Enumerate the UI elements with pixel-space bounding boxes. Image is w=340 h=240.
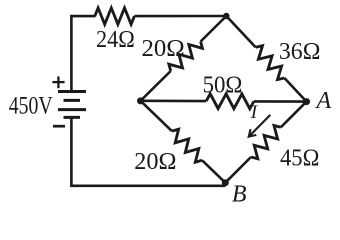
resistor 36Ω zigzag — [256, 46, 285, 80]
resistor 20Ω (lower left bridge arm) zigzag — [172, 129, 202, 162]
svg-text:450V: 450V — [9, 92, 53, 119]
svg-text:50Ω: 50Ω — [203, 71, 243, 98]
wire: left middle node to 50Ω resistor — [141, 100, 207, 103]
wire: battery negative terminal down left side and bottom rail to node B — [71, 117, 225, 185]
wire: battery positive terminal up left side and top rail to 24Ω resistor — [71, 16, 95, 92]
svg-text:B: B — [232, 181, 247, 207]
current arrow I through 45Ω pointing toward node B — [249, 115, 271, 137]
resistor 50Ω (bridge middle) zigzag — [206, 94, 254, 109]
battery - terminal sign — [53, 125, 65, 128]
resistor 24Ω zigzag — [95, 8, 135, 24]
svg-text:24Ω: 24Ω — [96, 26, 135, 53]
wire: 45Ω resistor down to node B — [225, 157, 251, 183]
wire: top node down-right to 36Ω resistor — [226, 16, 255, 47]
node B junction dot — [222, 179, 229, 186]
battery V1: 450V two-cell symbol plates — [58, 92, 86, 118]
node: top junction dot — [223, 13, 229, 19]
node: left middle junction dot — [137, 97, 144, 104]
node A junction dot — [303, 98, 310, 105]
resistor 20Ω (upper left bridge arm) zigzag — [169, 42, 203, 72]
svg-text:A: A — [315, 88, 332, 114]
resistor 45Ω zigzag — [251, 126, 281, 159]
wire: top node down-left to upper 20Ω resistor — [201, 16, 227, 42]
wire: 24Ω resistor to top junction node — [134, 15, 226, 18]
wire: 50Ω resistor to node A — [254, 100, 307, 103]
battery + terminal sign — [52, 76, 64, 88]
wire: node A down-left to 45Ω resistor — [281, 102, 307, 128]
wire: upper 20Ω resistor down to left middle node — [141, 71, 171, 101]
wire: left middle node down-right to lower 20Ω resistor — [141, 101, 172, 131]
svg-text:20Ω: 20Ω — [134, 148, 176, 175]
svg-text:36Ω: 36Ω — [279, 38, 321, 65]
wire: lower 20Ω resistor down to node B — [202, 160, 225, 182]
svg-text:20Ω: 20Ω — [142, 35, 185, 62]
wire: 36Ω resistor down to node A — [284, 78, 306, 102]
svg-text:45Ω: 45Ω — [280, 145, 319, 172]
